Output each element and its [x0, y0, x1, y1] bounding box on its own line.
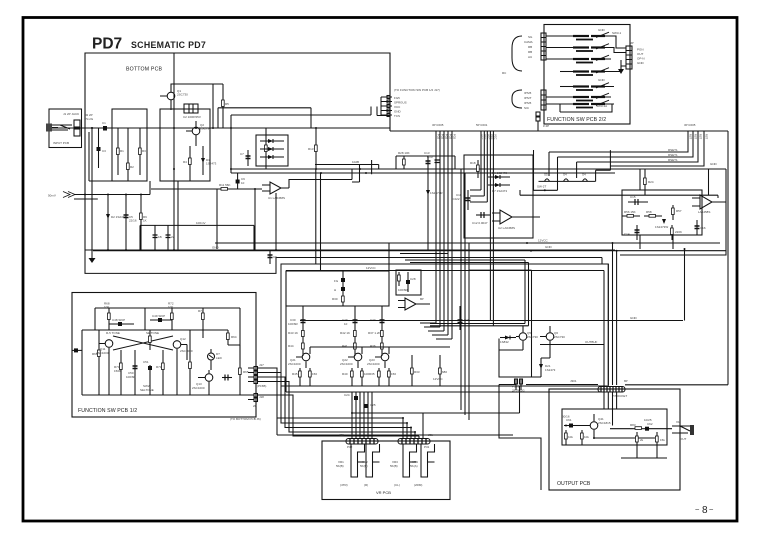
svg-text:1S2473W: 1S2473W [655, 225, 668, 229]
svg-text:R58: R58 [646, 210, 652, 214]
svg-text:~: ~ [709, 505, 714, 514]
svg-text:R64: R64 [231, 335, 237, 339]
svg-text:C48 SKIP: C48 SKIP [112, 318, 125, 322]
resistor R38y [381, 339, 383, 356]
svg-text:50/16: 50/16 [562, 415, 570, 419]
svg-text:10/25: 10/25 [644, 418, 652, 422]
capacitor C61 [564, 425, 580, 427]
svg-text:C16: C16 [700, 226, 706, 230]
resistor R42b [354, 339, 356, 356]
svg-text:VCC: VCC [487, 134, 491, 140]
svg-text:R40: R40 [342, 372, 348, 376]
diode D1 1S2473 [202, 146, 204, 175]
svg-text:(P15B): (P15B) [257, 384, 266, 388]
svg-text:J31: J31 [428, 433, 433, 437]
wire x255 x276 [255, 189, 276, 250]
svg-text:10K: 10K [104, 305, 109, 309]
bus group B wires [481, 131, 493, 326]
svg-text:J301: J301 [570, 379, 577, 383]
wires J17 to right nest [258, 368, 420, 436]
svg-text:3P RJ05: 3P RJ05 [684, 123, 696, 127]
transistor Q21 2SC1000 [302, 353, 310, 361]
svg-text:GND: GND [598, 28, 606, 32]
svg-text:2SC1000: 2SC1000 [192, 386, 205, 390]
svg-text:R28 10K: R28 10K [398, 151, 410, 155]
svg-text:OP-N: OP-N [637, 57, 645, 61]
svg-text:VCC: VCC [483, 134, 487, 140]
svg-text:S4: S4 [582, 173, 586, 177]
diode D21 1S2473 [540, 358, 542, 377]
wire y173 [231, 172, 615, 174]
resistor R83 [633, 428, 645, 430]
svg-text:5K(B): 5K(B) [390, 464, 398, 468]
svg-text:LED: LED [216, 356, 223, 360]
svg-text:2SC730: 2SC730 [527, 335, 538, 339]
svg-text:100mV: 100mV [196, 221, 206, 225]
svg-text:1S2473: 1S2473 [206, 162, 217, 166]
svg-text:P/SOCKET: P/SOCKET [612, 394, 627, 398]
transistor Q12 2SC1000 [173, 341, 181, 349]
svg-text:150: 150 [312, 372, 317, 376]
svg-text:C24: C24 [344, 393, 350, 397]
wire x389 drop [388, 243, 390, 271]
resistor R42 [354, 330, 356, 339]
svg-text:5K(B): 5K(B) [336, 464, 344, 468]
wire out row [594, 429, 672, 438]
wire top loop [171, 84, 223, 86]
svg-text:H: H [334, 288, 336, 292]
svg-text:C28: C28 [410, 277, 416, 281]
transistor Q31 2SC730 [519, 333, 527, 341]
output inner box [562, 409, 667, 445]
svg-text:S5: S5 [544, 173, 548, 177]
connector P301 2P plug [516, 379, 598, 390]
capacitor C62 [645, 427, 649, 431]
svg-text:SG: SG [528, 35, 533, 39]
svg-text:RST: RST [694, 134, 698, 140]
switch SW2-2 [560, 83, 614, 91]
svg-text:2SC1815: 2SC1815 [598, 421, 611, 425]
transistor Q13 [205, 374, 213, 382]
diode D10 [427, 169, 429, 250]
svg-text:VCC: VCC [494, 134, 498, 140]
wire to plug [499, 377, 541, 385]
svg-text:# 2P: # 2P [543, 124, 549, 128]
wires center block to VR pcb [352, 392, 372, 438]
stage box 2 [160, 109, 210, 181]
svg-text:RST: RST [689, 134, 693, 140]
svg-text:RSET1: RSET1 [668, 148, 678, 152]
diode block box [256, 135, 288, 166]
svg-text:RST: RST [699, 134, 703, 140]
svg-text:P31: P31 [424, 445, 430, 449]
resistor R34 [388, 368, 390, 386]
svg-text:100/6R: 100/6R [398, 288, 409, 292]
svg-text:2P: 2P [253, 404, 257, 408]
wire bottom bus y250 [85, 249, 615, 251]
wires to right connector [610, 36, 626, 72]
wire right column [202, 330, 204, 338]
svg-text:TCS: TCS [394, 114, 400, 118]
stage box 1 [112, 109, 147, 181]
svg-text:10k: 10k [568, 435, 573, 439]
resistor R66 [189, 330, 191, 395]
svg-text:5K(A): 5K(A) [410, 464, 418, 468]
wire 50mV stub [74, 181, 150, 199]
wire cross coupling [113, 336, 173, 350]
switch SW3-2 [546, 100, 614, 108]
diode D20 [500, 337, 516, 339]
resistor R81 [565, 430, 567, 445]
svg-text:SW3-1: SW3-1 [612, 31, 622, 35]
svg-text:FG5: FG5 [449, 134, 453, 140]
resistor R32 [439, 355, 441, 386]
wire x89 [89, 132, 112, 181]
resistor R73 [149, 330, 151, 350]
svg-text:8P: 8P [624, 379, 628, 383]
op-amp U2 LA6458S [500, 210, 512, 224]
svg-text:100/6R: 100/6R [126, 375, 137, 379]
switch SW1-2 [546, 44, 611, 52]
svg-text:C12 0.0047: C12 0.0047 [472, 221, 488, 225]
svg-text:RB: RB [528, 50, 532, 54]
svg-text:SCHEMATIC PD7: SCHEMATIC PD7 [131, 40, 206, 50]
svg-text:R24: R24 [648, 180, 654, 184]
capacitor C51 [149, 365, 151, 395]
wire x728 vertical [625, 131, 728, 385]
wire gnd y320 [300, 320, 683, 322]
svg-text:FG5: FG5 [453, 134, 457, 140]
connector J32 [346, 439, 378, 445]
wire staircase nest [400, 254, 532, 271]
svg-text:2SC730: 2SC730 [177, 93, 188, 97]
svg-text:R44: R44 [288, 344, 294, 348]
svg-text:C51: C51 [143, 360, 149, 364]
svg-text:SPRGUS: SPRGUS [394, 101, 407, 105]
wire main input line [52, 127, 390, 129]
capacitor C5b [154, 225, 156, 250]
wire fs1 v2 [144, 308, 146, 330]
ground symbol [89, 258, 96, 263]
resistor R59 [671, 225, 673, 240]
wires right bundle to VR [403, 413, 423, 438]
cap row C27 [381, 306, 383, 330]
wire x174 vertical [173, 53, 175, 250]
svg-text:2SC730: 2SC730 [554, 335, 565, 339]
svg-text:R74: R74 [198, 309, 204, 313]
svg-text:1S832: 1S832 [500, 340, 509, 344]
connector 2P fs22 [536, 112, 540, 116]
svg-text:C62: C62 [647, 422, 653, 426]
svg-text:3P RJ05: 3P RJ05 [432, 123, 444, 127]
svg-text:8: 8 [702, 505, 708, 516]
svg-text:CAMA: CAMA [524, 40, 533, 44]
capacitor C25 [364, 404, 368, 408]
wire long y435 [277, 418, 513, 435]
wire y195.2 [520, 190, 718, 198]
svg-text:R2: R2 [130, 165, 134, 169]
svg-text:C7: C7 [240, 152, 244, 156]
svg-text:C61: C61 [566, 418, 572, 422]
transistor Q23 2SC1000 [381, 353, 389, 361]
switch SW3-1 [546, 93, 611, 101]
svg-text:C2 100P/25V: C2 100P/25V [183, 115, 201, 119]
jumper S4 [564, 179, 569, 182]
svg-text:IPS/5: IPS/5 [524, 101, 532, 105]
svg-text:X1: X1 [676, 420, 680, 424]
node junction [91, 127, 93, 129]
connector left lower [541, 90, 546, 110]
svg-text:12VCC: 12VCC [433, 377, 444, 381]
svg-text:100/6R: 100/6R [288, 322, 299, 326]
svg-text:10K: 10K [168, 305, 173, 309]
resistor R5 [222, 85, 224, 128]
svg-text:R37 1.2K: R37 1.2K [368, 331, 381, 335]
svg-text:5K(B): 5K(B) [360, 464, 368, 468]
svg-text:SIC: SIC [524, 106, 530, 110]
box inner right [622, 190, 702, 235]
resistor R71 [162, 350, 164, 395]
svg-text:10dB: 10dB [352, 160, 359, 164]
resistor R2 [127, 128, 129, 181]
svg-text:1S2473: 1S2473 [545, 368, 556, 372]
pot VR4 [421, 444, 435, 477]
capacitor C15 [628, 201, 648, 203]
resistor R33 [411, 355, 413, 386]
wire y249 gnd [93, 250, 726, 252]
diode D3 [260, 140, 284, 142]
svg-text:GND: GND [212, 246, 220, 250]
center inner bottom line [286, 271, 604, 393]
svg-text:R1: R1 [120, 149, 124, 153]
wires 8p to output [604, 392, 617, 426]
bus group A wires [436, 131, 452, 339]
svg-text:GND: GND [394, 110, 402, 114]
resistor R39 [361, 368, 363, 386]
LED LED1 [208, 353, 215, 360]
vr pcb box [322, 441, 450, 500]
capacitor C3 [98, 128, 100, 168]
svg-text:150: 150 [391, 372, 396, 376]
cap row C26 [459, 306, 461, 330]
svg-text:J1 2P JACK: J1 2P JACK [63, 112, 79, 116]
diode D7 [488, 184, 510, 186]
svg-text:10: 10 [344, 322, 348, 326]
svg-text:12VCC: 12VCC [366, 266, 377, 270]
svg-text:R45: R45 [292, 372, 298, 376]
transistor Q11 2SC1000 [105, 340, 113, 348]
wire down from plug [499, 385, 541, 491]
wire mid rail fs1 [82, 329, 228, 331]
capacitor C14 [636, 225, 638, 240]
svg-text:C25: C25 [370, 403, 376, 407]
transistor Q41 2SC1815 [590, 422, 598, 430]
svg-text:(CL): (CL) [394, 483, 400, 487]
svg-text:PGN: PGN [637, 48, 644, 52]
svg-text:10: 10 [241, 181, 245, 185]
resistor R43b [302, 339, 304, 356]
connector 8P plug-socket [598, 387, 625, 393]
svg-text:VCC: VCC [394, 105, 401, 109]
connector J17 group2 [254, 394, 258, 398]
svg-text:FG5: FG5 [445, 134, 449, 140]
wire sw3 loop [560, 104, 612, 112]
switch SW1-1 [546, 32, 611, 40]
capacitor C1 [103, 126, 107, 131]
svg-text:RST: RST [705, 134, 709, 140]
wire x359 x371 stubs [352, 160, 372, 182]
resistor R4 [189, 146, 191, 181]
svg-text:GND: GND [545, 245, 553, 249]
wire y164.5 [315, 165, 379, 170]
svg-text:SW-2T: SW-2T [537, 185, 546, 189]
svg-text:(R): (R) [364, 483, 368, 487]
svg-text:1S2473R: 1S2473R [430, 191, 443, 195]
resistor R74 [202, 308, 204, 330]
resistor R1 [117, 128, 119, 175]
svg-text:22: 22 [171, 235, 175, 239]
capacitor C7 [247, 150, 249, 166]
resistor R28 [403, 156, 405, 169]
svg-text:BOTTOM PCB: BOTTOM PCB [126, 67, 163, 73]
svg-text:SE TONE: SE TONE [146, 331, 159, 335]
svg-text:FG5: FG5 [394, 96, 400, 100]
diode D9 [662, 219, 666, 224]
op-amp U4 [405, 298, 416, 310]
svg-text:8P: 8P [420, 297, 424, 301]
svg-text:R35: R35 [369, 372, 375, 376]
resistor R82 [581, 430, 583, 445]
svg-text:C49 SKIP: C49 SKIP [152, 314, 165, 318]
svg-text:0.022: 0.022 [452, 197, 460, 201]
capacitor C48 skip [109, 323, 134, 325]
wire gnd bus left [91, 140, 93, 249]
svg-text:2SC1000: 2SC1000 [288, 362, 301, 366]
diode D5 [260, 156, 284, 158]
bottom pcb box outline [85, 53, 390, 250]
resistor R9 [140, 195, 142, 251]
svg-text:10k: 10k [584, 435, 589, 439]
svg-text:2P PLUG: 2P PLUG [512, 389, 525, 393]
capacitor C28 [407, 272, 409, 292]
wire x217 12vcc [140, 189, 254, 251]
resistor R3 [139, 128, 141, 175]
resistor R84 [621, 432, 667, 458]
switch SW2-1 [560, 68, 614, 76]
resistor R85 [656, 432, 658, 449]
pot VR2 [366, 444, 380, 477]
svg-text:R-5 TONE: R-5 TONE [106, 331, 120, 335]
resistor R45 [299, 368, 301, 386]
capacitor C12 [476, 214, 490, 216]
wire long y413 [352, 386, 520, 413]
svg-text:PD7: PD7 [92, 36, 122, 53]
wire top rail fs1 [95, 308, 240, 360]
resistor R35 [378, 368, 380, 386]
ground arrow fs2 [618, 69, 624, 74]
svg-text:PLUG: PLUG [85, 117, 94, 121]
svg-text:SELTONE: SELTONE [140, 388, 154, 392]
wire bottom rail fs1 [82, 330, 248, 395]
capacitor C2 [184, 104, 198, 113]
svg-text:J17: J17 [259, 363, 264, 367]
svg-text:R71: R71 [156, 365, 162, 369]
wire nested top y115 [231, 107, 390, 116]
svg-text:FG5: FG5 [441, 134, 445, 140]
svg-text:3P: 3P [630, 41, 634, 45]
cap row C30 [302, 306, 304, 330]
svg-text:680: 680 [442, 370, 447, 374]
cable bracket RC [512, 36, 522, 108]
resistor R46 [309, 368, 311, 386]
svg-text:15k: 15k [660, 438, 665, 442]
connector J6 stubs [381, 97, 392, 115]
svg-text:LA6458S: LA6458S [698, 210, 710, 214]
jumper bus line [539, 150, 611, 181]
svg-text:2k: 2k [640, 438, 644, 442]
diode D12 [162, 380, 164, 395]
svg-text:SW3-1A: SW3-1A [596, 104, 607, 108]
svg-text:J18: J18 [259, 395, 264, 399]
svg-text:R4: R4 [183, 160, 187, 164]
capacitor C5 [125, 195, 127, 251]
svg-text:(TO BOTTOM PCB J6): (TO BOTTOM PCB J6) [230, 417, 261, 421]
transistor Q2 2SC730 [192, 127, 200, 135]
capacitor C49 skip [150, 319, 172, 321]
svg-text:VCC: VCC [480, 134, 484, 140]
wire base bus y347 [310, 346, 450, 348]
wire x648 [639, 169, 641, 249]
connector right J [626, 46, 632, 69]
svg-text:C15: C15 [630, 195, 636, 199]
function sw 2/2 box [544, 25, 630, 125]
svg-text:2SC1000: 2SC1000 [180, 349, 193, 353]
input pcb box [49, 109, 82, 148]
svg-text:AU: AU [528, 55, 532, 59]
transistor Q22 2SC1000 [354, 353, 362, 361]
svg-text:R33: R33 [414, 370, 420, 374]
connector J17 group1 [254, 367, 258, 371]
diode D6 [488, 176, 510, 178]
svg-text:FUNCTION SW PCB 1/2: FUNCTION SW PCB 1/2 [78, 408, 137, 414]
svg-text:U2 LA6458S: U2 LA6458S [498, 226, 515, 230]
resistor R13 [315, 128, 317, 169]
svg-text:C3: C3 [102, 149, 106, 153]
svg-text:FUNCTION SW PCB 2/2: FUNCTION SW PCB 2/2 [547, 117, 606, 123]
svg-text:RSET1: RSET1 [668, 158, 678, 162]
resistor R29 [398, 272, 400, 286]
capacitor C5c [167, 225, 169, 250]
resistor R18 [477, 160, 479, 178]
svg-text:2SC1000: 2SC1000 [367, 362, 380, 366]
svg-text:R43 1K: R43 1K [288, 331, 298, 335]
capacitor C13 [427, 156, 429, 169]
svg-text:~: ~ [695, 505, 700, 514]
output pcb box [549, 389, 680, 490]
svg-text:S4: S4 [563, 173, 567, 177]
svg-text:220K: 220K [675, 230, 682, 234]
svg-text:R13: R13 [308, 147, 314, 151]
wire x178 emitter [177, 181, 179, 250]
resistor R57 [672, 205, 674, 220]
svg-text:2SC1000: 2SC1000 [96, 351, 109, 355]
svg-text:GND: GND [598, 78, 606, 82]
component column P [342, 271, 344, 306]
wire x316 x321 verticals to center block [316, 169, 321, 271]
svg-text:INPUT PCB: INPUT PCB [53, 141, 69, 145]
svg-text:50mV: 50mV [48, 194, 56, 198]
op-amp U1 LA6458S [270, 182, 281, 194]
